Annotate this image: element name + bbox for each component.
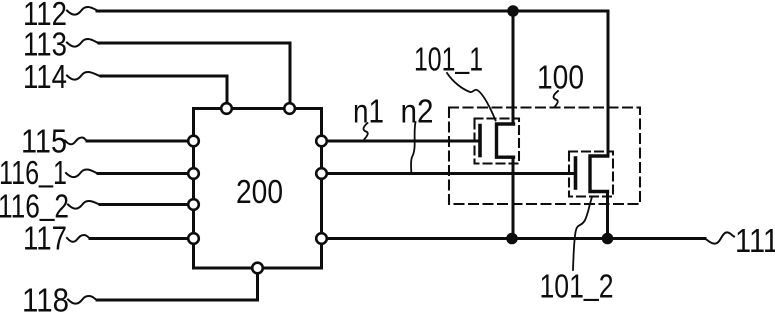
terminal bottom 118 — [252, 263, 263, 274]
transistor 101_1 gate bar — [478, 126, 482, 156]
svg-text:114: 114 — [23, 58, 67, 95]
terminal right 111 — [316, 233, 327, 244]
dashed box 100 — [449, 108, 640, 205]
leader squiggle 114 — [67, 72, 101, 80]
leader squiggle 116_1 — [66, 170, 98, 178]
leader squiggle 116_2 — [68, 201, 100, 209]
svg-text:111: 111 — [735, 222, 775, 259]
leader squiggle 111 — [705, 232, 734, 243]
leader squiggle n1 — [363, 123, 367, 139]
svg-text:n1: n1 — [353, 93, 384, 130]
wire drain 101_1 — [512, 11, 515, 124]
svg-text:116_1: 116_1 — [0, 151, 67, 191]
svg-text:100: 100 — [537, 59, 584, 96]
terminal right n2 — [316, 168, 327, 179]
leader squiggle 115 — [65, 138, 87, 145]
leader squiggle 113 — [67, 39, 99, 47]
svg-text:117: 117 — [23, 220, 67, 257]
wire n1 — [327, 140, 478, 143]
wire n2 — [327, 172, 574, 175]
wire source 101_1 — [512, 157, 515, 238]
dashed box around 101_1 — [475, 119, 520, 164]
svg-text:n2: n2 — [401, 93, 434, 130]
wire 114 — [101, 76, 227, 103]
terminal left 116_2 — [188, 199, 199, 210]
wire 115 — [87, 140, 188, 143]
svg-text:113: 113 — [23, 26, 67, 63]
svg-text:200: 200 — [236, 173, 283, 210]
leader line 101_1 — [447, 73, 496, 121]
leader squiggle 118 — [68, 296, 97, 304]
terminal right n1 — [316, 136, 327, 147]
leader squiggle 100 — [554, 91, 558, 107]
svg-text:116_2: 116_2 — [0, 185, 69, 225]
svg-text:118: 118 — [22, 282, 69, 313]
transistor 101_2 body — [590, 156, 608, 192]
transistor 101_1 body — [497, 124, 514, 157]
junction dot rail right — [602, 233, 614, 245]
block 200 — [194, 109, 322, 269]
wire 111 rail — [327, 237, 705, 240]
terminal top-right of 200 — [284, 103, 295, 114]
terminal left 115 — [188, 136, 199, 147]
leader line n2 — [411, 122, 416, 172]
junction dot rail left — [506, 233, 518, 245]
wire source 101_2 — [606, 192, 609, 239]
leader line 101_2 — [573, 197, 592, 270]
leader squiggle 117 — [67, 235, 90, 242]
wire 112 (to drain of 101_2) — [97, 11, 608, 156]
wire 116_2 — [100, 203, 188, 206]
terminal top-left of 200 — [221, 103, 232, 114]
wire 113 — [99, 43, 290, 103]
leader squiggle 112 — [67, 7, 99, 15]
wire 116_1 — [98, 172, 188, 175]
wire 118 — [97, 274, 258, 300]
dashed box around 101_2 — [569, 152, 613, 197]
terminal left 117 — [188, 233, 199, 244]
svg-text:101_2: 101_2 — [540, 265, 614, 305]
transistor 101_2 gate bar — [574, 158, 578, 188]
wire 117 — [90, 237, 188, 240]
junction dot on 112 line — [507, 5, 519, 17]
svg-text:101_1: 101_1 — [414, 38, 483, 78]
terminal left 116_1 — [188, 168, 199, 179]
